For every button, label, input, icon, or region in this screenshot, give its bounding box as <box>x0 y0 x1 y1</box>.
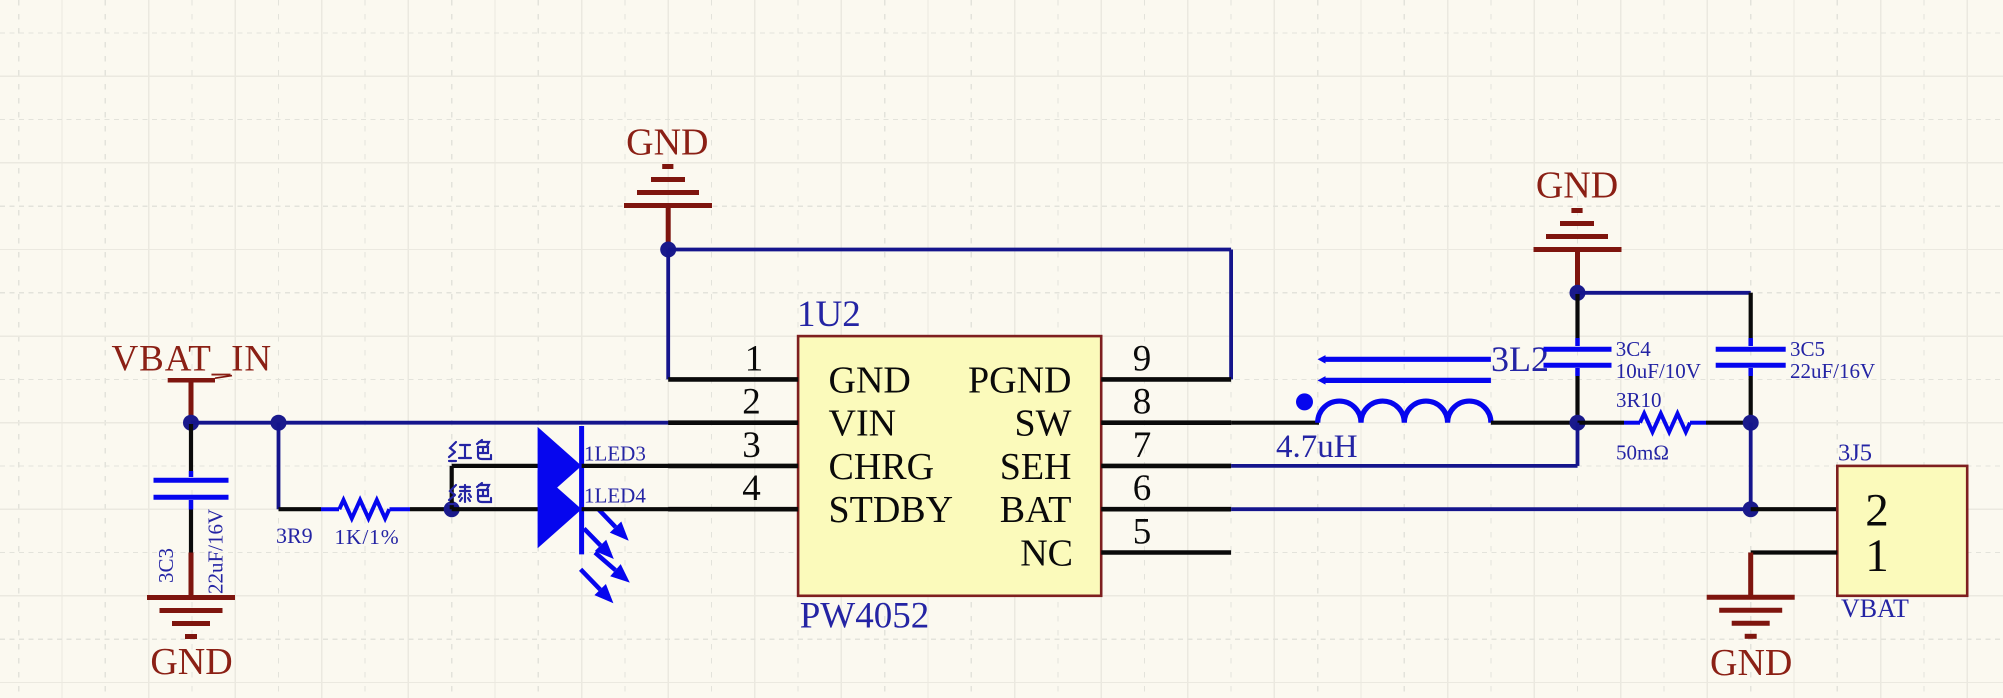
wire GND rail down to pin 1 <box>666 250 670 380</box>
wire BAT to connector pin 2 <box>1751 507 1838 511</box>
svg-text:50mΩ: 50mΩ <box>1616 441 1669 465</box>
svg-text:1LED4: 1LED4 <box>584 483 646 507</box>
wire BAT rail <box>1231 507 1751 511</box>
capacitor C4 (3C4 10uF/10V) <box>1544 294 1701 421</box>
svg-text:VIN: VIN <box>829 403 897 445</box>
junction VBAT_IN node <box>183 415 199 431</box>
svg-text:NC: NC <box>1020 532 1073 574</box>
wire ground rail to C5 <box>1578 291 1751 295</box>
svg-text:3J5: 3J5 <box>1838 440 1872 467</box>
ground GND right <box>1534 165 1622 291</box>
svg-text:22uF/16V: 22uF/16V <box>1790 359 1875 383</box>
junction GND net <box>660 242 676 258</box>
ground GND top middle <box>624 121 712 246</box>
wire pin 9 riser <box>1229 250 1233 380</box>
pin 8 (SW) <box>1015 382 1232 445</box>
svg-text:8: 8 <box>1133 382 1152 423</box>
svg-text:SEH: SEH <box>1000 446 1072 488</box>
label red color <box>449 440 491 461</box>
ground GND below C3 <box>147 598 235 684</box>
svg-text:4: 4 <box>742 468 761 509</box>
LED3 light arrows <box>584 509 629 559</box>
junction node A <box>1570 415 1586 431</box>
svg-text:1: 1 <box>1865 530 1889 582</box>
wire 3C3 to ground <box>189 553 194 597</box>
junction at resistor branch <box>271 415 287 431</box>
LED D3 (1LED3) <box>538 427 646 505</box>
svg-text:PGND: PGND <box>968 359 1071 401</box>
pin 2 (VIN) <box>668 382 896 445</box>
wire GND net top rail <box>668 248 1231 252</box>
svg-text:3C3: 3C3 <box>154 548 178 583</box>
pin 7 (SEH) <box>1000 425 1231 488</box>
wire inductor to node A <box>1491 421 1578 425</box>
pin 1 (GND) <box>668 338 911 401</box>
svg-text:GND: GND <box>1710 642 1792 684</box>
inductor L2 (3L2 4.7uH) <box>1276 339 1549 465</box>
junction ground node A top <box>1570 285 1586 301</box>
junction LED anode node <box>444 501 460 517</box>
capacitor C3 (3C3 22uF/16V) <box>154 424 229 594</box>
pin 6 (BAT) <box>1000 468 1231 531</box>
svg-text:3L2: 3L2 <box>1491 339 1549 379</box>
wire anode riser <box>450 466 454 509</box>
junction node B <box>1743 415 1759 431</box>
svg-text:2: 2 <box>1865 485 1889 537</box>
svg-text:SW: SW <box>1015 403 1072 445</box>
connector J5 (3J5) <box>1837 440 1967 624</box>
svg-text:3R9: 3R9 <box>276 523 313 548</box>
svg-text:3C5: 3C5 <box>1790 337 1825 361</box>
wire to LED3 anode <box>452 464 539 468</box>
wire to LED4 anode <box>452 507 539 511</box>
svg-text:10uF/10V: 10uF/10V <box>1616 359 1701 383</box>
ground GND below connector <box>1707 597 1795 684</box>
svg-text:1LED3: 1LED3 <box>584 442 646 466</box>
svg-text:6: 6 <box>1133 468 1152 509</box>
wire LED4 cathode to pin 4 <box>582 507 669 511</box>
svg-text:CHRG: CHRG <box>829 446 935 488</box>
svg-text:1U2: 1U2 <box>797 294 861 335</box>
svg-text:GND: GND <box>150 641 232 683</box>
svg-text:GND: GND <box>829 359 911 401</box>
pin 5 (NC) <box>1020 512 1231 575</box>
svg-text:3: 3 <box>742 425 761 466</box>
svg-text:VBAT: VBAT <box>1841 594 1909 623</box>
svg-text:1: 1 <box>745 338 764 379</box>
op-amp/IC U2 body (PW4052) <box>797 294 1101 637</box>
wire connector pin 1 to ground <box>1751 553 1838 597</box>
svg-text:7: 7 <box>1133 425 1152 466</box>
svg-text:2: 2 <box>742 382 761 423</box>
svg-text:22uF/16V: 22uF/16V <box>204 509 228 594</box>
svg-text:3R10: 3R10 <box>1616 388 1662 412</box>
svg-text:4.7uH: 4.7uH <box>1276 429 1358 465</box>
pin 9 (PGND) <box>968 338 1231 401</box>
junction BAT node <box>1743 501 1759 517</box>
svg-text:STDBY: STDBY <box>829 489 954 531</box>
pin 4 (STDBY) <box>668 468 953 531</box>
wire SW to inductor <box>1231 421 1319 425</box>
svg-text:BAT: BAT <box>1000 489 1072 531</box>
power port VBAT_IN <box>112 338 272 416</box>
wire node A to SEH <box>1231 423 1577 466</box>
svg-text:GND: GND <box>1536 165 1618 207</box>
LED D4 (1LED4) <box>538 470 647 548</box>
wire branch down to R9 <box>277 423 281 510</box>
wire node B down to BAT <box>1749 423 1753 510</box>
svg-text:5: 5 <box>1133 512 1152 553</box>
svg-text:VBAT_IN: VBAT_IN <box>112 338 272 379</box>
pin 3 (CHRG) <box>668 425 934 488</box>
capacitor C5 (3C5 22uF/16V) <box>1716 293 1875 421</box>
label green color <box>449 483 491 504</box>
svg-text:GND: GND <box>626 121 708 163</box>
LED4 light arrows <box>581 553 630 604</box>
LED cathode bar <box>579 426 584 554</box>
wire VBAT_IN rail <box>191 421 669 425</box>
svg-text:PW4052: PW4052 <box>800 596 930 637</box>
resistor R10 (3R10 50m&#937;) <box>1578 388 1751 464</box>
resistor R9 (3R9 1K/1%) <box>276 500 452 549</box>
svg-text:1K/1%: 1K/1% <box>335 525 400 549</box>
wire LED3 cathode to pin 3 <box>582 464 669 468</box>
svg-text:3C4: 3C4 <box>1616 337 1652 361</box>
svg-text:9: 9 <box>1133 338 1152 379</box>
